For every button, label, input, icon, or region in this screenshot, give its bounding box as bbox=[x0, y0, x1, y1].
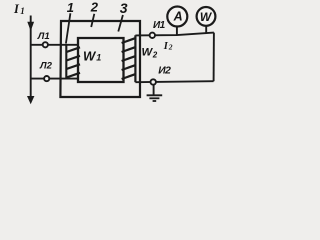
callout tick 3 bbox=[118, 15, 123, 32]
svg-text:W: W bbox=[83, 48, 97, 63]
wire right edge bbox=[213, 33, 215, 82]
callout tick 2 bbox=[91, 14, 94, 27]
winding W1 turns bbox=[66, 47, 80, 77]
wire left vertical supply bus bbox=[30, 16, 32, 97]
wire Л2 branch bbox=[31, 78, 78, 80]
current arrow I1 head bbox=[27, 22, 34, 31]
callout tick 1 bbox=[66, 13, 71, 43]
svg-text:W: W bbox=[142, 47, 154, 59]
svg-text:И1: И1 bbox=[153, 20, 166, 31]
ammeter A body bbox=[167, 7, 187, 27]
svg-text:A: A bbox=[173, 9, 183, 23]
core inner box bbox=[78, 38, 124, 82]
winding W1 lead line bbox=[65, 45, 67, 79]
ground bar 3 bbox=[153, 100, 157, 102]
transformer tank outer box bbox=[60, 21, 140, 97]
terminal Л2 bbox=[44, 76, 49, 81]
terminal И1 bbox=[150, 33, 155, 38]
svg-text:1: 1 bbox=[96, 53, 101, 63]
wattmeter W body bbox=[197, 7, 216, 26]
ground stem bbox=[153, 85, 155, 95]
wire И1 to meters bbox=[135, 33, 214, 36]
svg-text:Л2: Л2 bbox=[39, 61, 53, 72]
wattmeter stub bbox=[205, 25, 207, 33]
svg-text:W: W bbox=[200, 10, 213, 24]
wire И2 return bbox=[135, 81, 213, 82]
terminal И2 bbox=[151, 79, 156, 84]
svg-text:2: 2 bbox=[90, 0, 99, 15]
svg-text:2: 2 bbox=[168, 43, 173, 52]
svg-text:3: 3 bbox=[120, 0, 128, 16]
terminal Л1 bbox=[43, 42, 48, 47]
ammeter stub bbox=[176, 26, 178, 36]
bottom exit arrow head bbox=[27, 96, 34, 104]
svg-text:Л1: Л1 bbox=[37, 31, 50, 42]
svg-text:1: 1 bbox=[20, 6, 25, 16]
svg-text:2: 2 bbox=[152, 50, 158, 59]
ground bar 2 bbox=[149, 97, 159, 99]
winding W2 lead line bbox=[134, 35, 136, 82]
winding W2 turns bbox=[122, 38, 136, 79]
ground bar 1 bbox=[147, 94, 163, 96]
svg-text:И2: И2 bbox=[158, 66, 171, 77]
wire Л1 branch bbox=[31, 44, 78, 46]
svg-text:1: 1 bbox=[67, 0, 74, 15]
